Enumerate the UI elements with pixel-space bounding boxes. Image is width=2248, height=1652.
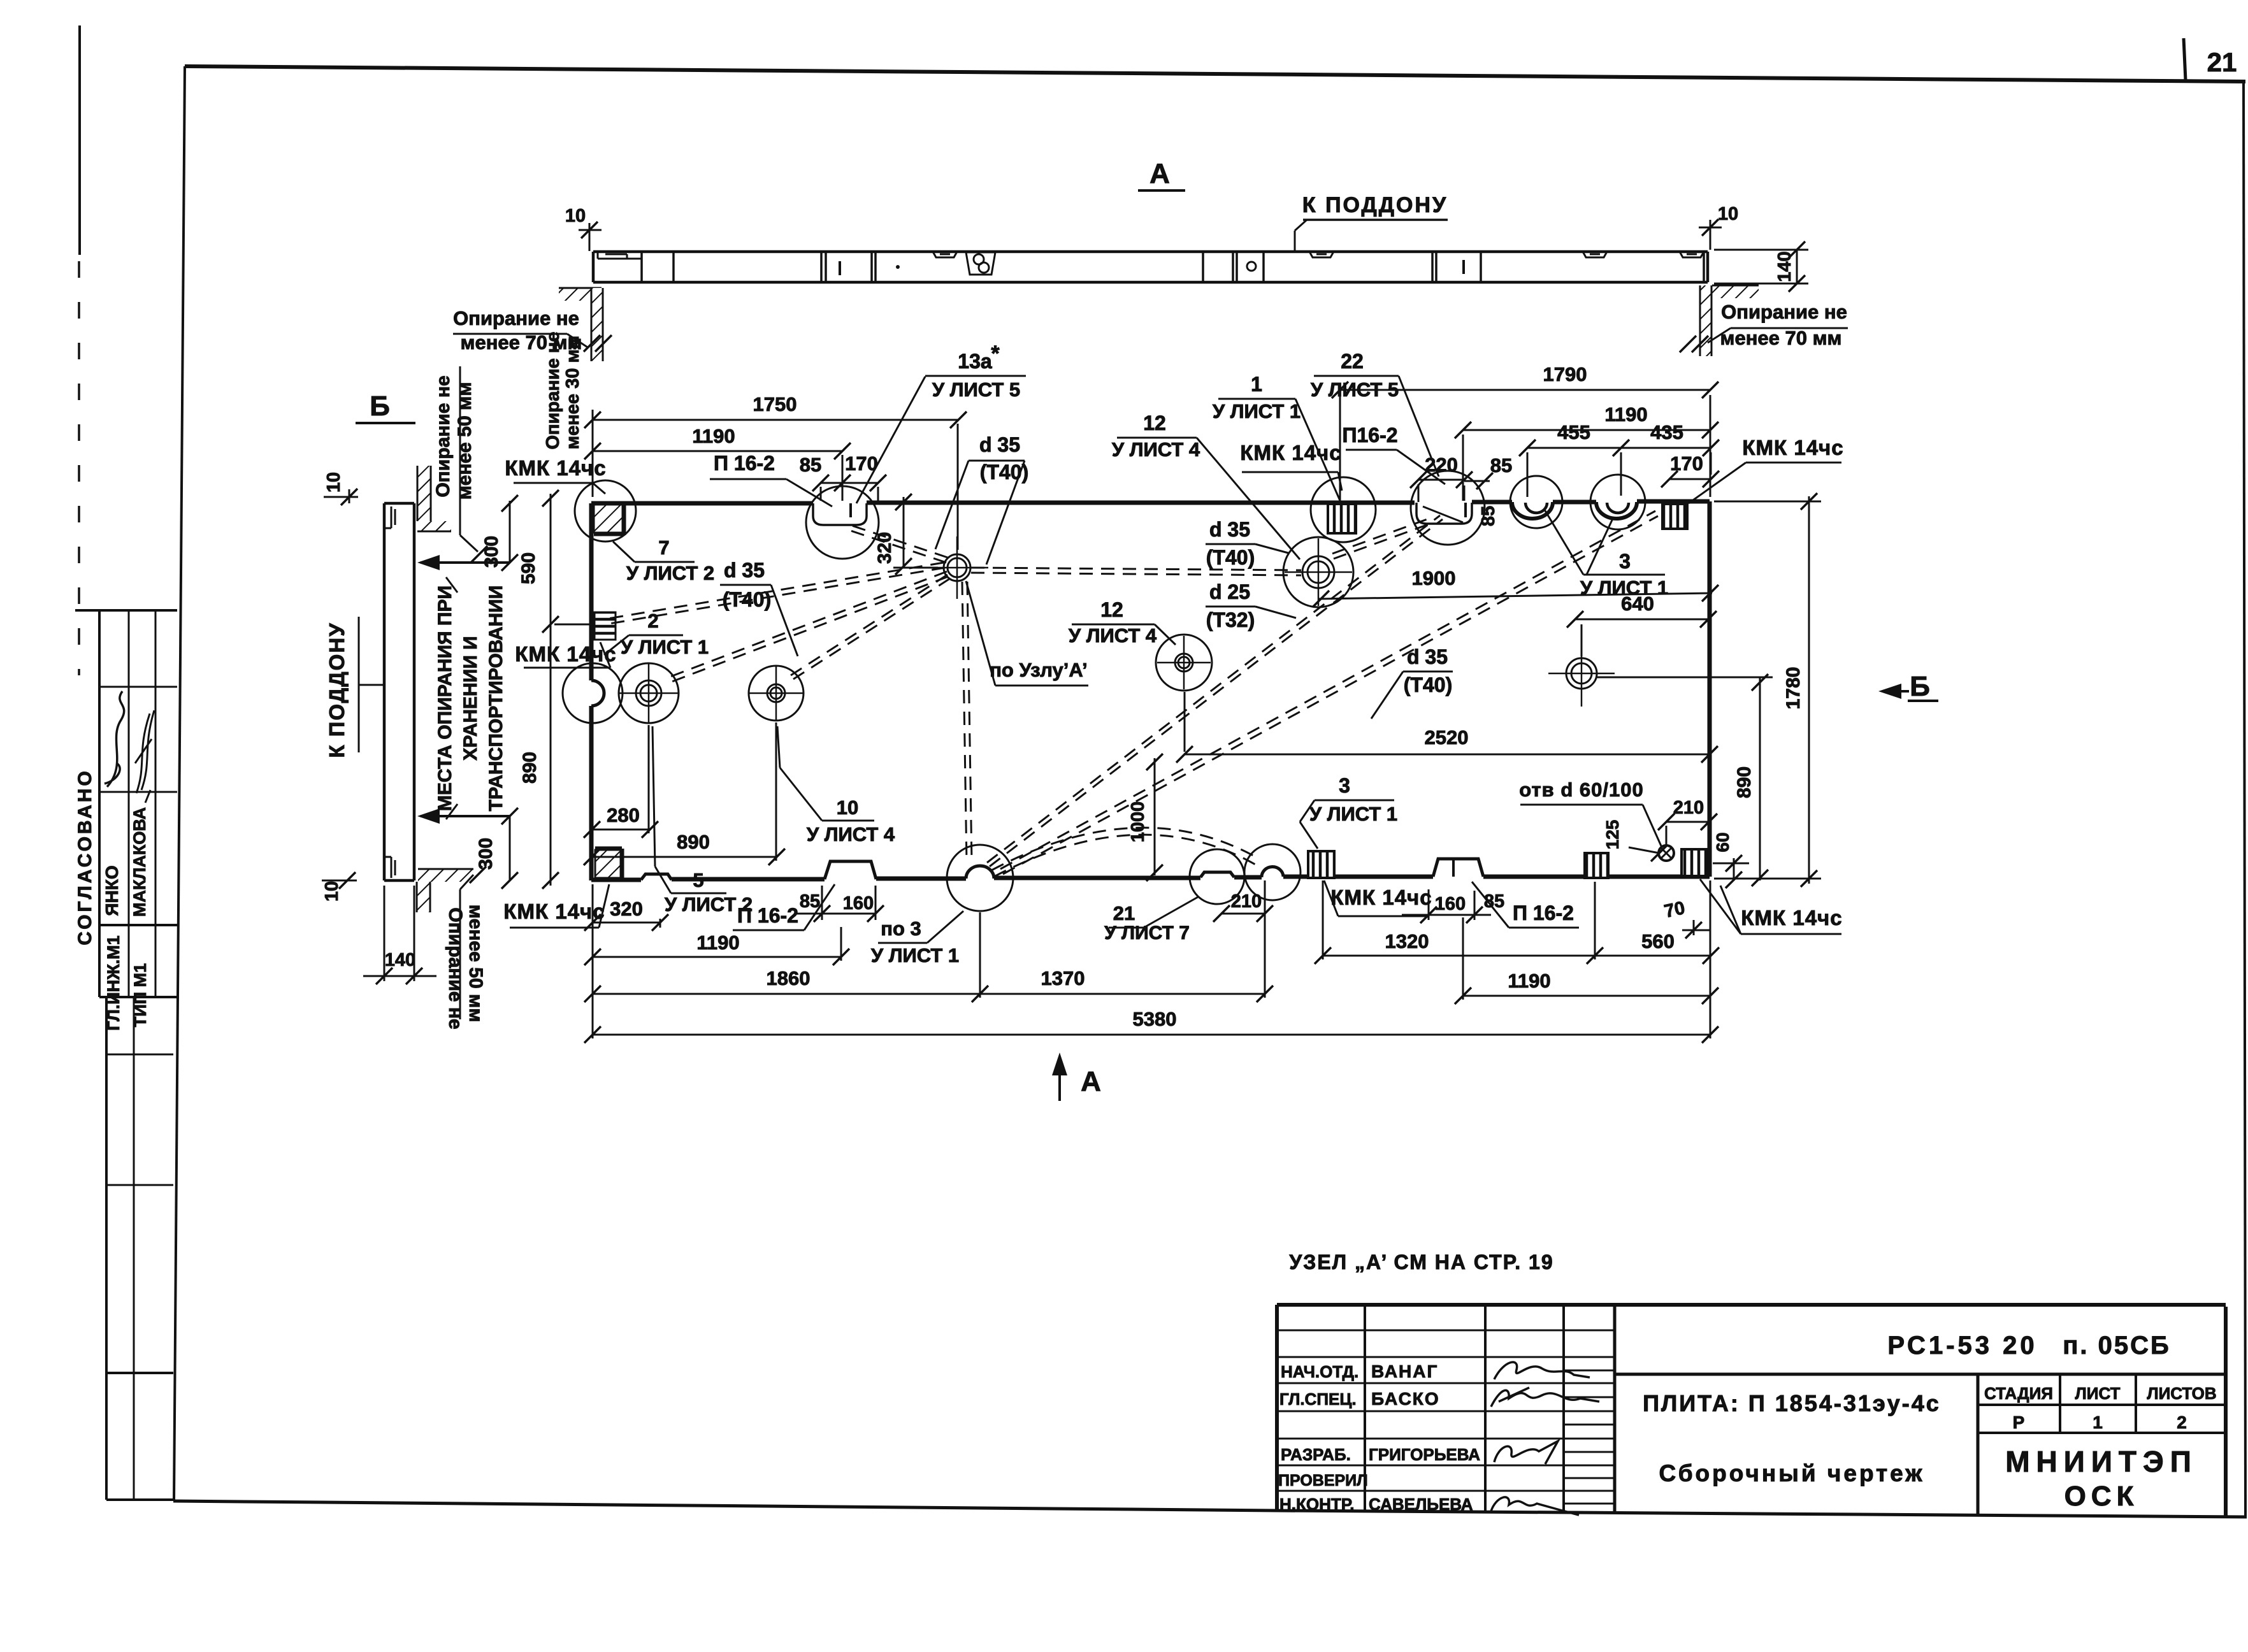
svg-text:85: 85 <box>1490 454 1512 477</box>
section A joint lines <box>642 252 1704 282</box>
svg-text:10: 10 <box>324 472 344 492</box>
svg-text:(Т40): (Т40) <box>1404 673 1452 696</box>
svg-text:70: 70 <box>1662 898 1687 922</box>
svg-text:Б: Б <box>1910 671 1930 702</box>
plan bottom edge <box>591 859 1710 880</box>
svg-text:10: 10 <box>565 206 586 226</box>
dim 1190 bottom-left <box>584 931 849 965</box>
svg-text:У ЛИСТ 1: У ЛИСТ 1 <box>1309 803 1397 825</box>
label d35 Т40 node <box>935 433 1028 564</box>
strand bottom circle to top right <box>1000 511 1658 874</box>
callout 3 У ЛИСТ 1 bottom <box>1300 774 1397 849</box>
label Опирание не менее 50 мм bottom <box>445 875 486 1030</box>
label КМК 14чс top-left <box>505 456 606 494</box>
svg-text:1780: 1780 <box>1783 667 1804 710</box>
svg-text:РАЗРАБ.: РАЗРАБ. <box>1281 1445 1351 1464</box>
svg-text:НАЧ.ОТД.: НАЧ.ОТД. <box>1281 1362 1358 1381</box>
title block row labels <box>1278 1362 1368 1514</box>
rotated dim 85 at pocket <box>1478 506 1499 526</box>
label Опирание не менее 70 мм right <box>1708 301 1848 349</box>
svg-text:21: 21 <box>1113 902 1135 924</box>
strand node to d35 loop <box>971 568 1301 575</box>
label КМК 14чс top middle <box>1240 441 1342 491</box>
label КМК 14чс bottom middle <box>1324 880 1432 916</box>
dim 1900 <box>1313 567 1718 607</box>
svg-text:П 16-2: П 16-2 <box>737 904 798 927</box>
svg-text:МАКЛАКОВА: МАКЛАКОВА <box>130 807 149 917</box>
svg-text:5: 5 <box>693 869 703 891</box>
sidebar text ТИП М1 <box>131 963 150 1027</box>
extension lines bottom-right dims <box>1323 880 1595 1000</box>
svg-text:по 3: по 3 <box>881 917 921 940</box>
svg-text:Н.КОНТР.: Н.КОНТР. <box>1279 1495 1354 1514</box>
extension lines bottom-left dims <box>593 880 1710 1038</box>
title block right part lines <box>1615 1374 2226 1514</box>
svg-text:1320: 1320 <box>1385 930 1429 952</box>
svg-text:МЕСТА ОПИРАНИЯ ПРИ: МЕСТА ОПИРАНИЯ ПРИ <box>435 585 456 811</box>
svg-text:Опирание не: Опирание не <box>543 332 563 450</box>
dim 1750 <box>584 393 967 428</box>
label d35 Т40 left <box>720 559 798 656</box>
callout 12 У ЛИСТ 4 upper <box>1112 412 1300 559</box>
svg-text:10: 10 <box>837 796 858 819</box>
section A left support wall <box>559 288 612 361</box>
callout по 3 У ЛИСТ 1 <box>871 911 963 966</box>
dim 2520 <box>1176 692 1718 763</box>
svg-text:320: 320 <box>610 898 643 920</box>
svg-text:К ПОДДОНУ: К ПОДДОНУ <box>1302 193 1448 217</box>
callout 5 У ЛИСТ 2 <box>652 726 753 916</box>
dim 125 rotated <box>1603 820 1668 861</box>
dim 1190 bottom-right <box>1455 970 1718 1004</box>
strand node down to bottom circle <box>962 582 972 861</box>
svg-text:БАСКО: БАСКО <box>1371 1389 1440 1409</box>
svg-text:125: 125 <box>1603 820 1622 850</box>
label КМК 14чс bottom left <box>503 884 609 928</box>
strand arc bottom <box>991 828 1259 877</box>
dim 560 <box>1595 930 1719 964</box>
section A position marks <box>840 260 1464 275</box>
sidebar text ГЛ.ИНЖ.М1 <box>104 935 123 1030</box>
title block rows left part <box>1277 1330 1615 1504</box>
lifting loop 12 <box>1156 635 1212 691</box>
dim 300 upper <box>481 495 518 571</box>
strand node to pocket 22 <box>849 525 947 563</box>
svg-text:МНИИТЭП: МНИИТЭП <box>2005 1445 2198 1478</box>
svg-text:85: 85 <box>1478 506 1499 526</box>
dim 1370 <box>980 967 1273 1002</box>
anchor plate bottom-left corner <box>595 849 622 878</box>
svg-text:1190: 1190 <box>1508 970 1550 992</box>
svg-text:ГЛ.СПЕЦ.: ГЛ.СПЕЦ. <box>1279 1390 1357 1409</box>
label Б section marker left <box>356 391 415 423</box>
svg-text:У ЛИСТ 1: У ЛИСТ 1 <box>871 944 959 966</box>
dim 85 170 left <box>800 452 886 491</box>
strand bottom circle to П16-2 pocket <box>987 515 1443 866</box>
svg-text:КМК 14чс: КМК 14чс <box>503 900 605 923</box>
svg-text:320: 320 <box>874 532 895 564</box>
svg-text:Сборочный чертеж: Сборочный чертеж <box>1659 1460 1924 1486</box>
svg-text:У ЛИСТ 1: У ЛИСТ 1 <box>1580 577 1668 599</box>
svg-text:(Т40): (Т40) <box>723 588 771 611</box>
dim 5380 <box>584 1008 1718 1043</box>
dim 640 <box>1567 593 1717 656</box>
circle callout bottom center <box>947 845 1013 911</box>
section A dim 10 left <box>565 206 602 251</box>
dim 85 160 bottom-left <box>796 886 884 922</box>
section A bar outline <box>593 252 1708 282</box>
svg-text:140: 140 <box>1775 251 1795 282</box>
svg-text:отв d 60/100: отв d 60/100 <box>1519 779 1643 801</box>
svg-text:210: 210 <box>1231 891 1262 912</box>
svg-text:П16-2: П16-2 <box>1342 424 1397 447</box>
svg-text:85: 85 <box>800 454 821 476</box>
label d25 Т32 <box>1206 580 1296 631</box>
svg-text:2: 2 <box>647 610 658 632</box>
strand d35 loop to П16-2 pocket <box>1332 517 1434 559</box>
svg-text:d 35: d 35 <box>1209 518 1250 541</box>
svg-text:ЯНКО: ЯНКО <box>102 865 122 916</box>
dim 280 <box>584 725 658 838</box>
section Б dim 140 <box>363 886 436 984</box>
svg-text:12: 12 <box>1143 412 1166 435</box>
strand node to loop 5 <box>667 571 948 683</box>
svg-text:У ЛИСТ 5: У ЛИСТ 5 <box>1311 378 1399 401</box>
svg-text:Опирание не: Опирание не <box>453 307 579 329</box>
dim 320 <box>584 898 668 931</box>
svg-text:210: 210 <box>1673 798 1704 818</box>
svg-text:(Т40): (Т40) <box>1206 546 1255 569</box>
svg-text:1: 1 <box>1251 373 1262 396</box>
anchor plate top-left corner <box>594 505 624 535</box>
page left border <box>174 66 185 1501</box>
callout 7 У ЛИСТ 2 <box>613 536 714 584</box>
page top border <box>185 66 2245 82</box>
callout 10 У ЛИСТ 4 <box>777 726 895 845</box>
svg-text:У ЛИСТ 1: У ЛИСТ 1 <box>621 636 709 658</box>
svg-text:ОСК: ОСК <box>2064 1481 2139 1512</box>
callout 21 У ЛИСТ 7 <box>1104 897 1198 944</box>
label КМК 14чс bottom right <box>1700 879 1843 934</box>
anchor plate left edge КМК <box>594 612 616 640</box>
circle callout bottom notch <box>1244 844 1301 900</box>
svg-text:К ПОДДОНУ: К ПОДДОНУ <box>325 622 349 758</box>
svg-text:Опирание не: Опирание не <box>445 907 466 1029</box>
label d35 Т40 right upper <box>1206 518 1288 569</box>
svg-text:РС1-53 20: РС1-53 20 <box>1887 1332 2037 1360</box>
svg-text:КМК 14чс: КМК 14чс <box>1742 436 1843 459</box>
sidebar text СОГЛАСОВАНО <box>75 768 96 945</box>
svg-text:2520: 2520 <box>1425 726 1469 749</box>
section Б top lip <box>384 506 395 528</box>
dim 1000 rotated <box>1128 754 1163 881</box>
section A left end lip <box>598 252 642 259</box>
dim 1860 <box>584 967 988 1002</box>
plan top edge <box>591 501 1710 519</box>
note УЗЕЛ А СМ НА СТР 19 <box>1289 1251 1553 1274</box>
svg-text:САВЕЛЬЕВА: САВЕЛЬЕВА <box>1369 1495 1473 1514</box>
svg-text:У ЛИСТ 1: У ЛИСТ 1 <box>1213 400 1301 422</box>
dim 320 vertical <box>874 494 938 575</box>
callout 13а* У ЛИСТ 5 <box>856 341 1026 503</box>
svg-text:3: 3 <box>1619 550 1631 573</box>
title block СТАДИЯ ЛИСТ ЛИСТОВ <box>1984 1384 2217 1432</box>
title block names <box>1369 1361 1480 1514</box>
signature САВЕЛЬЕВА <box>1491 1497 1579 1515</box>
svg-text:СТАДИЯ: СТАДИЯ <box>1984 1384 2053 1403</box>
dim 70 bottom-right <box>1662 898 1710 938</box>
svg-text:УЗЕЛ „А’ СМ НА СТР. 19: УЗЕЛ „А’ СМ НА СТР. 19 <box>1289 1251 1553 1274</box>
svg-text:КМК 14чс: КМК 14чс <box>505 456 606 480</box>
svg-text:1860: 1860 <box>767 967 811 989</box>
svg-text:ТИП М1: ТИП М1 <box>131 963 150 1027</box>
svg-text:280: 280 <box>607 804 640 826</box>
dim 1780 right <box>1783 493 1817 887</box>
svg-text:Р: Р <box>2013 1412 2025 1432</box>
callout 1 У ЛИСТ 1 <box>1213 373 1341 502</box>
callout 22 У ЛИСТ 5 <box>1311 350 1439 477</box>
label КМК 14чс top right <box>1689 436 1844 503</box>
notch circle 455 left <box>1510 476 1562 528</box>
extension lines top-left dims <box>593 410 958 550</box>
svg-text:1370: 1370 <box>1041 967 1085 989</box>
section Б bar outline <box>384 503 414 880</box>
svg-text:1900: 1900 <box>1412 567 1456 589</box>
svg-text:ПЛИТА: П 1854-31эу-4с: ПЛИТА: П 1854-31эу-4с <box>1643 1390 1941 1416</box>
svg-text:140: 140 <box>385 950 415 970</box>
extension lines right dims <box>1597 501 1821 879</box>
sheet number 21 <box>2184 38 2237 80</box>
svg-text:d 35: d 35 <box>1407 645 1448 668</box>
svg-text:КМК 14чс: КМК 14чс <box>1240 441 1341 464</box>
title block columns <box>1365 1305 1615 1512</box>
svg-text:А: А <box>1081 1066 1101 1097</box>
label А section marker bottom <box>1052 1052 1101 1101</box>
section Б dim 10 bottom <box>322 872 357 901</box>
svg-text:П 16-2: П 16-2 <box>1513 901 1574 924</box>
section A hole pocket detail <box>966 252 995 275</box>
label П 16-2 bottom right <box>1472 882 1579 928</box>
extension lines top-right dims <box>821 395 1711 502</box>
svg-text:п. 05СБ: п. 05СБ <box>2063 1332 2171 1360</box>
notch circle 455 right <box>1590 475 1645 529</box>
dim 170 top-right <box>1661 452 1719 487</box>
svg-text:КМК 14чс: КМК 14чс <box>1330 886 1432 909</box>
svg-text:10: 10 <box>1718 204 1738 224</box>
plan left edge <box>591 503 604 880</box>
svg-text:Опирание не: Опирание не <box>433 375 454 497</box>
label П 16-2 bottom left <box>733 884 835 930</box>
title block subtitle Сборочный чертеж <box>1659 1460 1924 1486</box>
sidebar signature 2 <box>135 710 154 803</box>
page bottom border <box>173 1501 2247 1517</box>
label Б section marker right <box>1878 671 1938 702</box>
section Б bottom lip <box>384 857 395 878</box>
signature БАСКО <box>1491 1388 1599 1407</box>
svg-text:Опирание не: Опирание не <box>1721 301 1847 323</box>
section A right support wall <box>1680 285 1759 356</box>
svg-text:890: 890 <box>519 752 540 784</box>
svg-text:890: 890 <box>1734 766 1755 798</box>
svg-text:455: 455 <box>1557 421 1590 443</box>
label Опирание не менее 30 мм (30) <box>543 332 583 450</box>
sidebar text ЯНКО <box>102 865 122 916</box>
svg-text:У ЛИСТ 2: У ЛИСТ 2 <box>626 562 714 584</box>
sidebar table upper <box>75 610 177 997</box>
lifting loop 10 <box>749 666 803 721</box>
label d35 Т40 lower right <box>1371 645 1453 719</box>
lifting loop d35 <box>1283 537 1353 607</box>
sidebar text МАКЛАКОВА <box>130 807 149 917</box>
svg-text:Б: Б <box>370 391 390 422</box>
lifting loop 640 <box>1548 640 1615 707</box>
svg-text:170: 170 <box>1670 452 1703 475</box>
dim 890 right <box>1734 674 1768 886</box>
section A dim 10 right <box>1699 204 1738 250</box>
circle callout left edge <box>563 663 623 723</box>
svg-text:22: 22 <box>1341 350 1364 373</box>
svg-text:ТРАНСПОРТИРОВАНИИ: ТРАНСПОРТИРОВАНИИ <box>486 585 507 812</box>
svg-text:менее 30 мм: менее 30 мм <box>563 336 583 450</box>
svg-text:160: 160 <box>843 893 874 914</box>
anchor plate bottom КМК center <box>1308 851 1334 878</box>
svg-text:300: 300 <box>475 838 496 870</box>
label К ПОДДОНУ left <box>325 617 384 758</box>
label П16-2 upper middle <box>1342 424 1445 484</box>
node A strand anchor <box>926 536 988 599</box>
dim 1790 <box>1332 363 1718 398</box>
svg-text:ЛИСТОВ: ЛИСТОВ <box>2147 1384 2216 1403</box>
hole отв d60/100 <box>1659 845 1674 861</box>
circle callout bottom lip 21 <box>1190 849 1244 904</box>
svg-text:ПРОВЕРИЛ: ПРОВЕРИЛ <box>1278 1472 1368 1490</box>
anchor plate bottom right 1 <box>1585 853 1608 878</box>
anchor plate bottom right corner <box>1682 849 1706 876</box>
svg-text:1790: 1790 <box>1543 363 1587 385</box>
svg-text:ГРИГОРЬЕВА: ГРИГОРЬЕВА <box>1369 1445 1480 1464</box>
label К ПОДДОНУ top <box>1295 193 1448 251</box>
svg-text:ВАНАГ: ВАНАГ <box>1371 1361 1438 1381</box>
lifting loop 5 <box>618 663 679 724</box>
signature ВАНАГ <box>1494 1362 1590 1379</box>
circle callout top-left corner <box>575 480 636 542</box>
section A dim 140 <box>1714 241 1808 292</box>
dim 60 right <box>1713 832 1749 888</box>
svg-text:60: 60 <box>1713 832 1733 852</box>
anchor plate top-right <box>1662 504 1687 529</box>
dim 890 interior <box>584 722 785 865</box>
svg-text:ХРАНЕНИИ И: ХРАНЕНИИ И <box>460 636 481 760</box>
label КМК 14чс left edge <box>515 642 616 668</box>
label Опирание не менее 70 мм left <box>453 307 587 354</box>
dim 590 890 left <box>518 490 590 889</box>
pocket П16-2 top <box>1416 503 1472 524</box>
sidebar signature 1 <box>104 691 124 787</box>
svg-text:21: 21 <box>2207 47 2237 77</box>
plan right edge <box>1708 501 1712 877</box>
anchor plate top КМК <box>1328 504 1356 533</box>
section Б bottom support wall <box>417 866 486 912</box>
title block outer frame <box>1277 1305 2226 1516</box>
svg-text:менее 50 мм: менее 50 мм <box>454 382 475 500</box>
svg-text:d 35: d 35 <box>724 559 765 582</box>
svg-text:1190: 1190 <box>692 425 735 447</box>
svg-text:У ЛИСТ 4: У ЛИСТ 4 <box>807 823 895 845</box>
callout 3 У ЛИСТ 1 top-right <box>1545 510 1668 599</box>
svg-text:1000: 1000 <box>1128 801 1148 843</box>
svg-text:КМК 14чс: КМК 14чс <box>1741 906 1842 930</box>
dim 1190 top-left <box>584 425 851 459</box>
title block МНИИТЭП ОСК <box>2005 1445 2198 1512</box>
svg-text:менее 50 мм: менее 50 мм <box>465 905 486 1023</box>
svg-text:по Узлу’А’: по Узлу’А’ <box>990 659 1088 681</box>
label по Узлу А <box>966 581 1088 686</box>
section A top notches <box>933 252 957 257</box>
callout 12 У ЛИСТ 4 lower <box>1069 598 1176 647</box>
svg-text:10: 10 <box>322 881 342 901</box>
dim 455 435 <box>1519 421 1719 456</box>
svg-text:12: 12 <box>1100 598 1123 621</box>
svg-text:300: 300 <box>481 536 502 568</box>
svg-text:1: 1 <box>2093 1412 2103 1432</box>
label А section marker top <box>1138 158 1185 190</box>
svg-text:3: 3 <box>1339 774 1350 797</box>
circle callout П16-2 <box>1411 471 1485 545</box>
title block name ПЛИТА: П 1854-31эу-4с <box>1643 1390 1941 1416</box>
svg-text:менее 70 мм: менее 70 мм <box>1720 327 1842 349</box>
svg-text:У ЛИСТ 5: У ЛИСТ 5 <box>932 378 1020 401</box>
circle callout pocket 22 <box>806 486 879 559</box>
svg-text:890: 890 <box>677 831 710 853</box>
label Опирание не менее 50 мм top <box>433 366 478 552</box>
title block doc number РС1-53 20 п. 05СБ <box>1887 1332 2170 1360</box>
svg-text:СОГЛАСОВАНО: СОГЛАСОВАНО <box>75 768 96 945</box>
dim 85 top <box>1464 454 1512 489</box>
sidebar table lower <box>106 997 174 1500</box>
dim 220 <box>1410 454 1473 488</box>
svg-text:*: * <box>991 341 1000 366</box>
strand node to loop 10 <box>791 575 950 679</box>
svg-text:1190: 1190 <box>696 931 739 954</box>
svg-text:ЛИСТ: ЛИСТ <box>2075 1384 2121 1403</box>
svg-text:7: 7 <box>658 536 669 559</box>
dim 300 lower <box>475 808 518 889</box>
label отв d60/100 <box>1519 779 1662 847</box>
svg-text:2: 2 <box>2177 1412 2187 1432</box>
section Б top support wall <box>417 466 487 563</box>
svg-text:160: 160 <box>1435 894 1466 914</box>
callout 2 У ЛИСТ 1 <box>604 610 709 658</box>
scan paper edge <box>79 25 80 675</box>
svg-text:1190: 1190 <box>1604 403 1647 426</box>
svg-text:435: 435 <box>1650 421 1683 443</box>
svg-text:У ЛИСТ 4: У ЛИСТ 4 <box>1112 438 1200 461</box>
dim 1190 top-right <box>1455 403 1718 438</box>
svg-text:А: А <box>1149 158 1170 189</box>
label МЕСТА ОПИРАНИЯ ПРИ ХРАНЕНИИ И ТРАНСПОРТИРОВАНИИ <box>435 577 507 819</box>
svg-text:560: 560 <box>1641 930 1675 952</box>
page right border <box>2244 82 2245 1516</box>
svg-text:(Т32): (Т32) <box>1206 608 1255 631</box>
svg-text:590: 590 <box>518 552 539 584</box>
strand node to left anchor <box>608 563 945 624</box>
svg-text:d 25: d 25 <box>1209 580 1250 603</box>
label П 16-2 top <box>710 452 832 506</box>
места опирания arrows <box>417 555 510 824</box>
dim 160 85 bottom-right <box>1402 891 1504 923</box>
svg-text:d 35: d 35 <box>979 433 1020 456</box>
svg-text:85: 85 <box>800 891 820 912</box>
